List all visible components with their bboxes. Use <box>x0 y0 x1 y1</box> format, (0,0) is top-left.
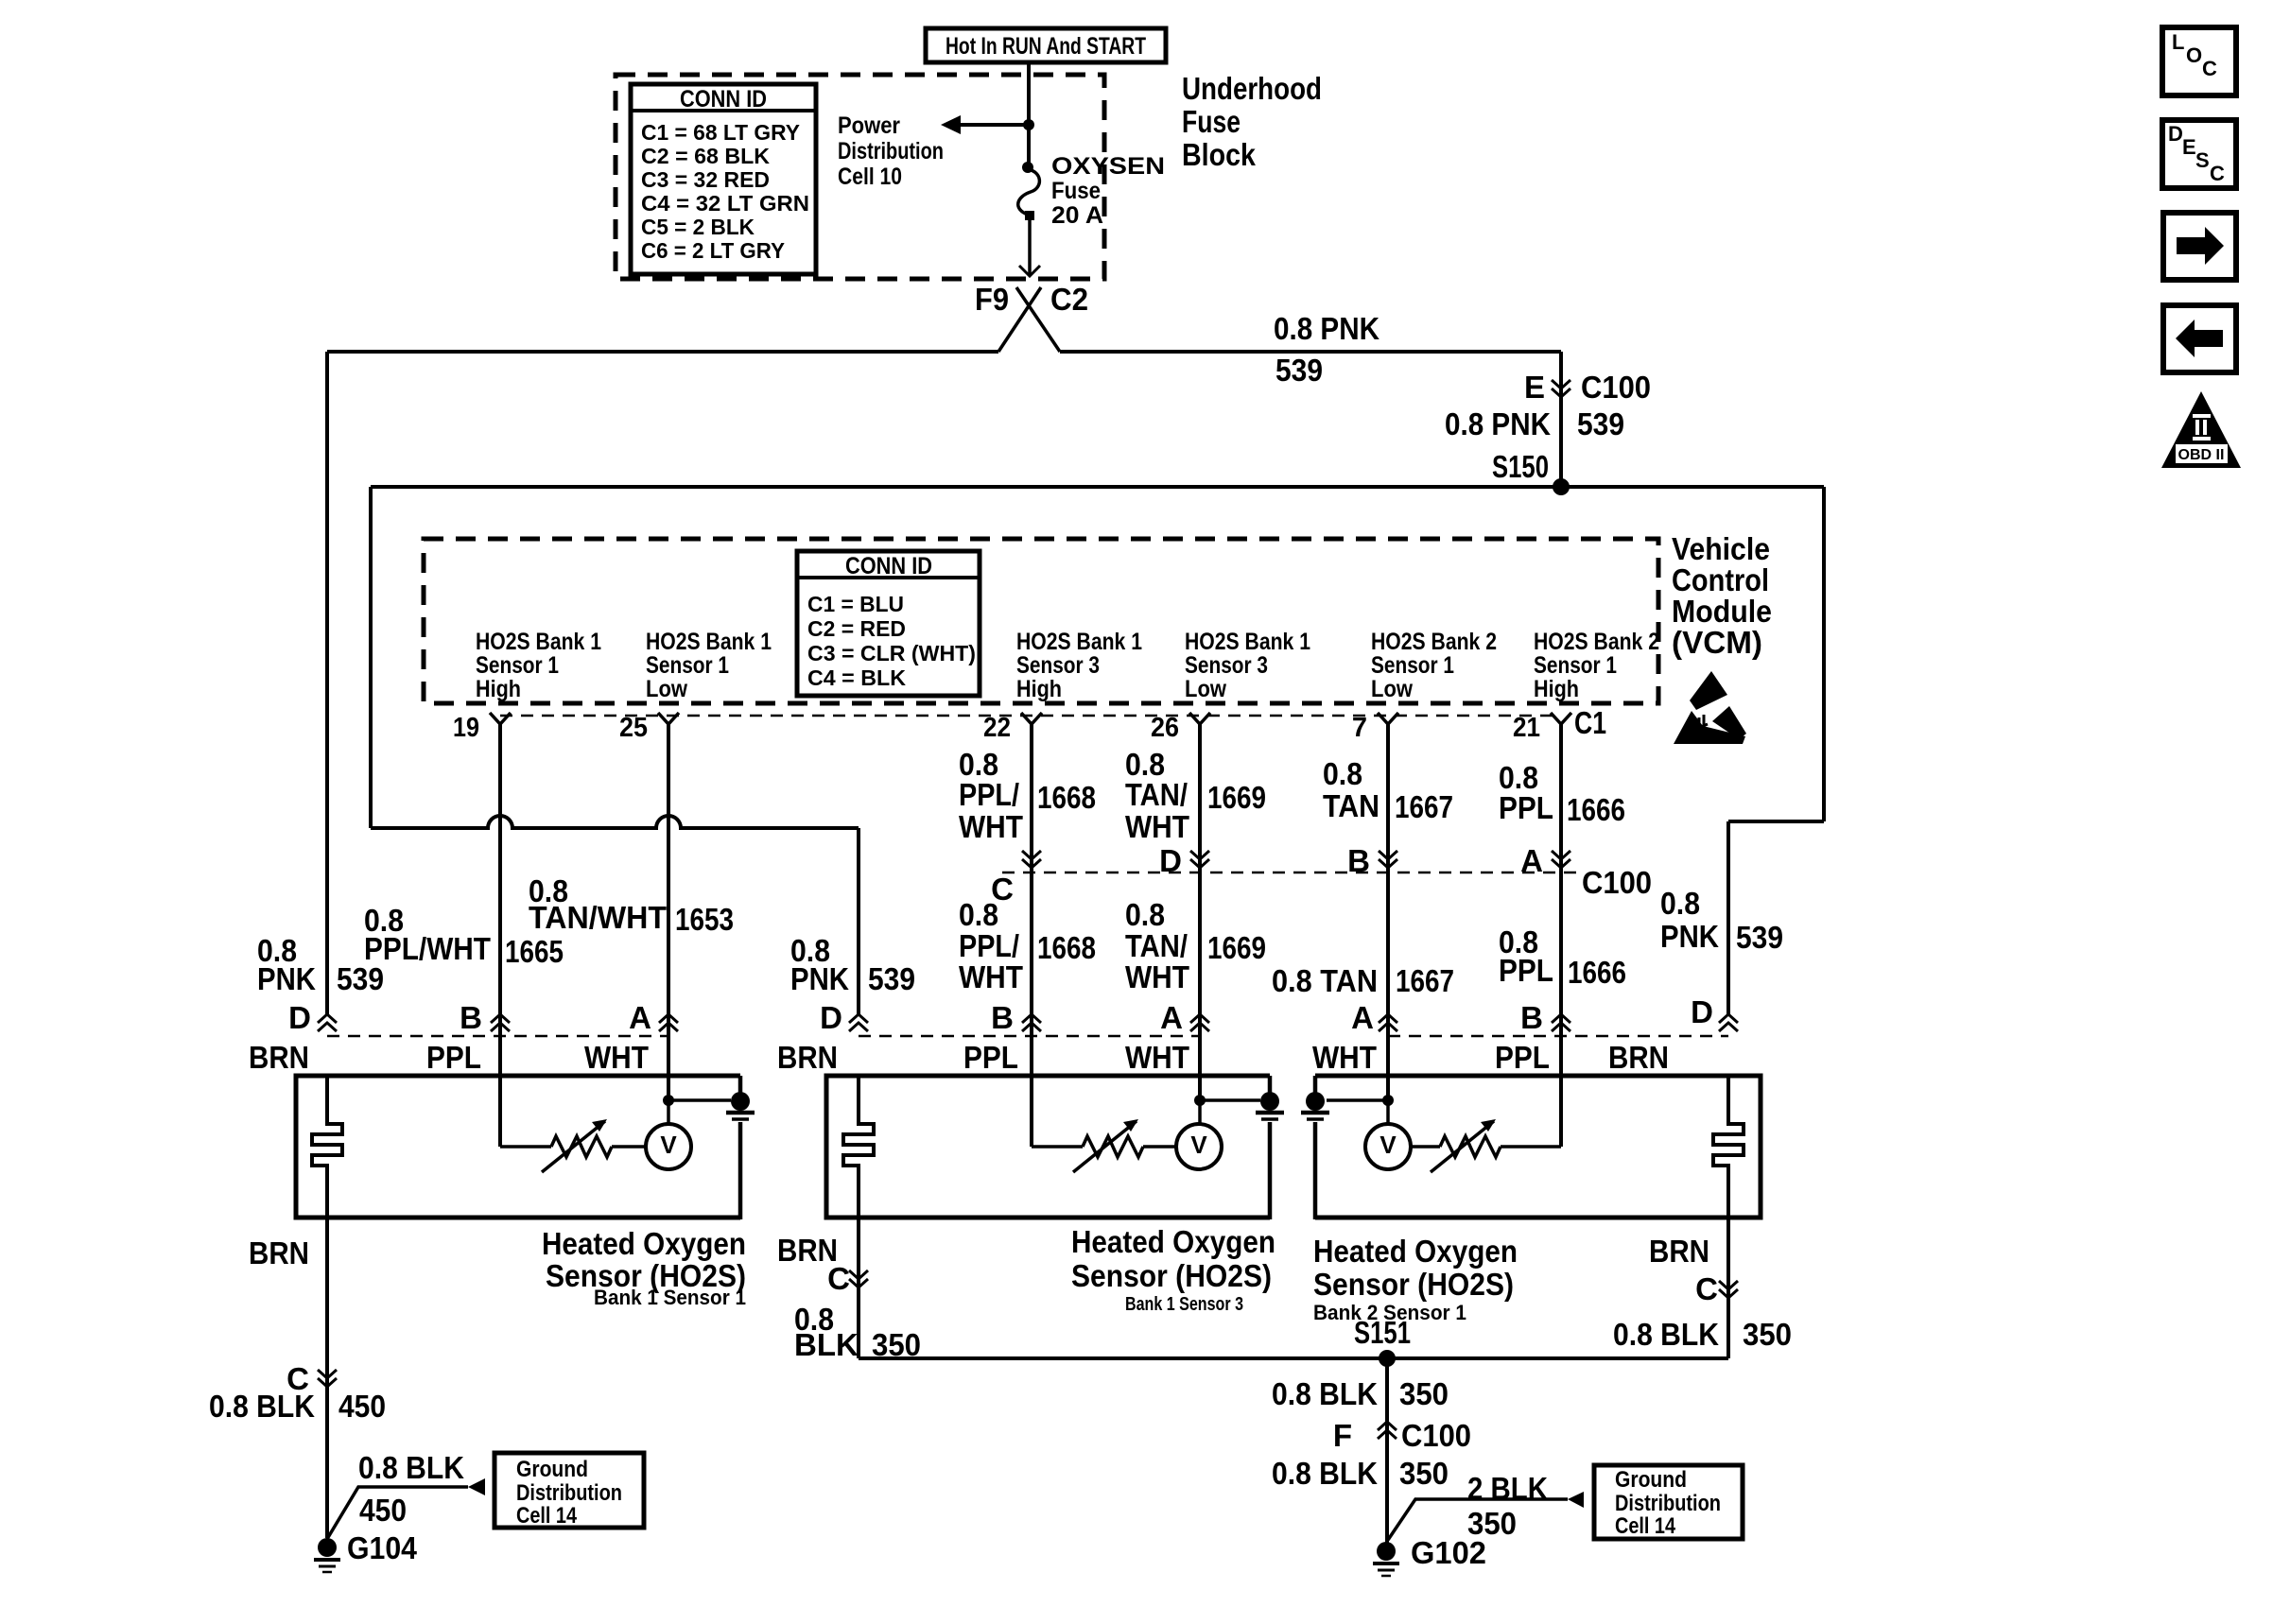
ESD sensitivity symbol <box>1690 671 1727 710</box>
svg-text:G102: G102 <box>1411 1535 1486 1570</box>
svg-text:1667: 1667 <box>1395 789 1453 824</box>
wire to Power Distribution <box>955 123 1029 127</box>
svg-text:C2: C2 <box>1050 282 1088 317</box>
svg-text:CONN ID: CONN ID <box>680 86 767 112</box>
svg-text:C2 = RED: C2 = RED <box>807 616 906 641</box>
svg-text:350: 350 <box>1743 1317 1792 1352</box>
triangle to Ground Distribution (left) <box>468 1478 485 1495</box>
svg-text:0.8 PNK: 0.8 PNK <box>1445 406 1551 441</box>
svg-text:0.8 PNK: 0.8 PNK <box>1274 311 1379 346</box>
svg-text:WHT: WHT <box>584 1040 649 1075</box>
svg-text:HO2S Bank 1: HO2S Bank 1 <box>1185 629 1310 655</box>
svg-text:WHT: WHT <box>1125 959 1189 994</box>
svg-text:PPL: PPL <box>1499 790 1553 825</box>
svg-text:PNK: PNK <box>1660 919 1719 954</box>
svg-text:(VCM): (VCM) <box>1672 625 1762 660</box>
svg-text:CONN ID: CONN ID <box>845 553 932 579</box>
svg-text:0.8 BLK: 0.8 BLK <box>358 1450 464 1485</box>
svg-text:22: 22 <box>983 713 1011 743</box>
svg-text:TAN: TAN <box>1323 788 1379 823</box>
wire B to variable resistor (sensor 2) <box>1032 1145 1083 1149</box>
svg-text:WHT: WHT <box>1125 809 1189 844</box>
wire BRN/BLK 350 sensor2 to S151 <box>857 1219 860 1358</box>
svg-text:Sensor (HO2S): Sensor (HO2S) <box>1071 1258 1272 1293</box>
label box "Hot In RUN And START" <box>926 28 1166 62</box>
arrowhead to Power Distribution <box>941 115 961 134</box>
ground (sensor 3 internal) <box>1313 1076 1318 1097</box>
box Ground Distribution Cell 14 (right) <box>1594 1465 1743 1539</box>
svg-text:TAN/WHT: TAN/WHT <box>529 900 667 935</box>
svg-text:539: 539 <box>337 961 384 996</box>
icon arrow left <box>2163 305 2236 372</box>
voltmeter V (sensor 1) <box>646 1124 691 1169</box>
svg-text:0.8 BLK: 0.8 BLK <box>1272 1376 1378 1411</box>
wire from Hot In RUN And START to junction <box>1027 62 1031 125</box>
svg-text:Sensor 3: Sensor 3 <box>1185 652 1268 679</box>
svg-text:C: C <box>1695 1271 1718 1306</box>
wire PNK down to HO2S B2S1 pin D <box>1726 821 1730 1014</box>
wire to Ground Distribution Cell 14 (left) <box>327 1487 468 1539</box>
svg-text:2 BLK: 2 BLK <box>1467 1471 1548 1506</box>
svg-text:C3 = CLR (WHT): C3 = CLR (WHT) <box>807 641 976 665</box>
CONN ID header separator <box>631 109 816 112</box>
wire TAN/WHT 1669 pin26 to sensor2 <box>1198 724 1202 1100</box>
wire bus step left <box>1728 820 1824 823</box>
CONN ID table (fuse block) <box>631 84 816 274</box>
svg-text:HO2S Bank 1: HO2S Bank 1 <box>1016 629 1142 655</box>
wire BRN/BLK 350 sensor3 to S151 <box>1726 1219 1730 1358</box>
svg-text:1666: 1666 <box>1568 955 1626 990</box>
voltmeter V (sensor 2) <box>1176 1124 1222 1169</box>
svg-text:C100: C100 <box>1582 865 1652 900</box>
splice S150 <box>1553 478 1570 495</box>
svg-text:1667: 1667 <box>1396 963 1454 998</box>
svg-text:BRN: BRN <box>1608 1040 1669 1075</box>
svg-text:Sensor 3: Sensor 3 <box>1016 652 1100 679</box>
svg-text:A: A <box>1160 1000 1183 1035</box>
svg-text:C: C <box>827 1261 850 1296</box>
wire TAN/WHT 1653 pin25 to sensor1 <box>667 724 670 1100</box>
svg-text:F9: F9 <box>975 282 1009 317</box>
svg-text:0.8: 0.8 <box>1323 756 1362 791</box>
svg-text:350: 350 <box>1399 1456 1449 1491</box>
svg-text:1669: 1669 <box>1207 780 1266 815</box>
svg-text:OBD II: OBD II <box>2178 447 2225 463</box>
svg-text:0.8: 0.8 <box>1660 886 1700 921</box>
svg-text:Distribution: Distribution <box>1615 1491 1721 1516</box>
svg-text:Control: Control <box>1672 562 1769 597</box>
wire S151 bus <box>859 1356 1728 1360</box>
svg-text:A: A <box>1351 1000 1374 1035</box>
svg-text:C5 = 2 BLK: C5 = 2 BLK <box>641 215 755 239</box>
svg-text:Hot In RUN And START: Hot In RUN And START <box>946 33 1146 60</box>
wire V to A (sensor 3) <box>1386 1100 1390 1124</box>
wire 0.8 PNK 539 left run <box>327 350 998 354</box>
wire bus right side down <box>1822 487 1826 821</box>
svg-text:450: 450 <box>338 1389 386 1424</box>
Heated Oxygen Sensor box Bank 1 Sensor 3 <box>826 1076 1270 1218</box>
svg-text:TAN/: TAN/ <box>1125 777 1188 812</box>
svg-text:HO2S Bank 2: HO2S Bank 2 <box>1371 629 1497 655</box>
svg-text:C1: C1 <box>1574 705 1606 740</box>
svg-text:B: B <box>1347 843 1370 878</box>
wire S150 bus top <box>371 485 1824 489</box>
svg-text:BRN: BRN <box>249 1040 309 1075</box>
wire junction to ground (sensor 1) <box>668 1098 731 1102</box>
heater element (sensor 3) <box>1713 1074 1744 1219</box>
svg-text:PNK: PNK <box>790 961 849 996</box>
svg-text:0.8: 0.8 <box>959 897 998 932</box>
svg-text:High: High <box>1016 676 1062 702</box>
junction on wire A (sensor 3) <box>1382 1095 1394 1106</box>
wire fuse to fuse block output <box>1028 219 1032 274</box>
wire junction to ground (sensor 3) <box>1327 1098 1388 1102</box>
CONN ID table (VCM) <box>797 551 980 696</box>
wire PNK down to S150 <box>1559 352 1563 487</box>
icon arrow right <box>2163 213 2236 280</box>
svg-text:Sensor 1: Sensor 1 <box>1534 652 1617 679</box>
svg-text:Sensor 1: Sensor 1 <box>476 652 559 679</box>
svg-text:C: C <box>2202 57 2217 80</box>
svg-text:1653: 1653 <box>675 902 734 937</box>
variable resistor (sensor 2) <box>1083 1136 1143 1157</box>
svg-text:20 A: 20 A <box>1051 202 1103 229</box>
svg-text:0.8 BLK: 0.8 BLK <box>209 1389 315 1424</box>
splice S151 <box>1379 1350 1396 1367</box>
svg-text:Power: Power <box>838 112 900 139</box>
svg-text:Low: Low <box>646 676 687 702</box>
svg-text:D: D <box>1691 994 1713 1029</box>
svg-text:PPL: PPL <box>426 1040 481 1075</box>
svg-text:D: D <box>288 1000 311 1035</box>
heater element (sensor 1) <box>312 1074 342 1219</box>
svg-text:539: 539 <box>868 961 915 996</box>
heater element (sensor 2) <box>843 1074 874 1219</box>
svg-text:21: 21 <box>1513 713 1540 743</box>
connector C100 dashed line (mid) <box>1002 872 1577 874</box>
wire PNK down left side to HO2S B1S1 pin D <box>325 352 329 1014</box>
wire BLK 350 S151 to G102 <box>1385 1358 1389 1543</box>
svg-text:S150: S150 <box>1492 449 1549 484</box>
svg-text:Ground: Ground <box>1615 1467 1687 1493</box>
svg-text:B: B <box>991 1000 1014 1035</box>
icon OBD II triangle <box>2161 391 2241 468</box>
svg-text:PPL: PPL <box>1495 1040 1550 1075</box>
icon LOC <box>2162 27 2236 95</box>
svg-text:1665: 1665 <box>505 934 564 969</box>
dashed box Underhood Fuse Block <box>616 75 1104 279</box>
svg-text:Cell 10: Cell 10 <box>838 164 902 190</box>
box Ground Distribution Cell 14 (left) <box>495 1453 644 1528</box>
connector X symbol F9/C2 <box>998 287 1060 352</box>
svg-text:C3 = 32 RED: C3 = 32 RED <box>641 167 770 192</box>
svg-text:Distribution: Distribution <box>838 138 944 164</box>
wire V to A (sensor 2) <box>1198 1100 1202 1124</box>
svg-text:Cell 14: Cell 14 <box>516 1503 578 1529</box>
arrowhead at fuse block exit <box>1019 266 1040 276</box>
svg-text:0.8 BLK: 0.8 BLK <box>1613 1317 1719 1352</box>
wire PPL 1666 pin21 to sensor3 <box>1559 724 1563 1147</box>
svg-text:B: B <box>460 1000 482 1035</box>
svg-text:OXYSEN: OXYSEN <box>1051 153 1165 180</box>
svg-text:L: L <box>2172 30 2184 54</box>
wire bus left side down <box>369 487 373 828</box>
ground (sensor 1 internal) <box>738 1076 743 1097</box>
svg-text:BRN: BRN <box>1649 1234 1709 1269</box>
variable resistor (sensor 1) <box>551 1136 612 1157</box>
svg-text:Bank 1 Sensor 1: Bank 1 Sensor 1 <box>594 1286 746 1309</box>
svg-text:Low: Low <box>1371 676 1413 702</box>
Heated Oxygen Sensor box Bank 1 Sensor 1 <box>296 1076 740 1218</box>
icon DESC <box>2162 120 2236 188</box>
svg-text:539: 539 <box>1577 406 1624 441</box>
svg-text:1668: 1668 <box>1037 930 1096 965</box>
svg-text:Ground: Ground <box>516 1457 588 1482</box>
svg-text:C1 = BLU: C1 = BLU <box>807 592 904 616</box>
wire PPL/WHT 1665 pin19 to sensor1 <box>498 724 502 1147</box>
svg-text:Heated Oxygen: Heated Oxygen <box>1313 1234 1518 1269</box>
ground G104 <box>318 1538 337 1557</box>
svg-text:C: C <box>2210 162 2225 185</box>
Heated Oxygen Sensor box Bank 2 Sensor 1 <box>1315 1076 1761 1218</box>
svg-text:High: High <box>476 676 521 702</box>
wire to Ground Distribution Cell 14 (right) <box>1388 1499 1568 1540</box>
variable resistor (sensor 3) <box>1440 1136 1501 1157</box>
wire PPL/WHT 1668 pin22 to sensor2 <box>1030 724 1033 1147</box>
svg-text:Sensor (HO2S): Sensor (HO2S) <box>1313 1267 1514 1302</box>
wire PNK down to HO2S B1S3 pin D <box>857 828 860 1014</box>
svg-text:HO2S Bank 1: HO2S Bank 1 <box>476 629 601 655</box>
svg-text:Heated Oxygen: Heated Oxygen <box>1071 1224 1275 1259</box>
wire TAN 1667 pin7 to sensor3 <box>1386 724 1390 1100</box>
svg-text:F: F <box>1333 1418 1352 1453</box>
svg-text:Heated Oxygen: Heated Oxygen <box>542 1226 746 1261</box>
svg-text:Fuse: Fuse <box>1051 178 1101 204</box>
wire bus lower run with hops over sensor wires <box>371 816 859 828</box>
svg-text:E: E <box>2182 135 2196 159</box>
svg-text:Underhood: Underhood <box>1182 71 1322 106</box>
sensor 3 connector row <box>1388 1035 1728 1038</box>
svg-text:A: A <box>1520 843 1543 878</box>
svg-text:HO2S Bank 2: HO2S Bank 2 <box>1534 629 1659 655</box>
svg-text:S: S <box>2195 148 2210 172</box>
svg-text:0.8 BLK: 0.8 BLK <box>1272 1456 1378 1491</box>
svg-text:539: 539 <box>1275 353 1323 388</box>
voltmeter V (sensor 3) <box>1365 1124 1411 1169</box>
svg-text:V: V <box>1190 1131 1207 1159</box>
svg-text:C2 = 68 BLK: C2 = 68 BLK <box>641 144 770 168</box>
svg-text:PNK: PNK <box>257 961 316 996</box>
svg-text:High: High <box>1534 676 1579 702</box>
svg-text:WHT: WHT <box>959 959 1023 994</box>
svg-text:C1 = 68 LT GRY: C1 = 68 LT GRY <box>641 120 800 145</box>
svg-text:S151: S151 <box>1354 1315 1411 1350</box>
svg-text:1669: 1669 <box>1207 930 1266 965</box>
ground G102 <box>1377 1542 1396 1561</box>
junction on wire A (sensor 1) <box>663 1095 674 1106</box>
svg-text:V: V <box>1379 1131 1397 1159</box>
svg-text:26: 26 <box>1151 713 1179 743</box>
svg-text:Sensor 1: Sensor 1 <box>646 652 729 679</box>
svg-text:C4 = BLK: C4 = BLK <box>807 665 906 690</box>
svg-text:C6 = 2 LT GRY: C6 = 2 LT GRY <box>641 238 785 263</box>
junction at power distribution tap <box>1023 119 1034 130</box>
svg-text:D: D <box>2168 122 2183 146</box>
wire junction to fuse <box>1027 125 1031 166</box>
svg-text:Vehicle: Vehicle <box>1672 531 1770 566</box>
wire BRN/BLK 450 sensor1 to G104 <box>325 1219 329 1538</box>
svg-text:WHT: WHT <box>1312 1040 1377 1075</box>
svg-text:WHT: WHT <box>959 809 1023 844</box>
svg-text:Low: Low <box>1185 676 1226 702</box>
fuse OXYSEN 20 A <box>1022 162 1033 173</box>
dashed box Vehicle Control Module (VCM) <box>424 539 1658 703</box>
junction on wire A (sensor 2) <box>1194 1095 1206 1106</box>
triangle to Ground Distribution (right) <box>1568 1492 1584 1508</box>
svg-text:Distribution: Distribution <box>516 1480 622 1506</box>
svg-text:PPL/: PPL/ <box>959 928 1019 963</box>
svg-text:0.8 TAN: 0.8 TAN <box>1272 963 1378 998</box>
sensor 2 connector row <box>859 1035 1200 1038</box>
sensor 1 connector row <box>327 1035 668 1038</box>
svg-text:Block: Block <box>1182 137 1257 172</box>
svg-text:19: 19 <box>453 713 479 743</box>
svg-text:Module: Module <box>1672 594 1772 629</box>
wire V to A (sensor 1) <box>667 1100 670 1124</box>
svg-text:O: O <box>2186 43 2202 67</box>
svg-text:E: E <box>1524 370 1545 405</box>
ground (sensor 2 internal) <box>1268 1076 1273 1097</box>
svg-text:7: 7 <box>1352 713 1367 743</box>
svg-text:Fuse: Fuse <box>1182 104 1241 139</box>
wire B to variable resistor (sensor 1) <box>500 1145 551 1149</box>
svg-text:C100: C100 <box>1401 1418 1471 1453</box>
svg-text:PPL: PPL <box>1499 953 1553 988</box>
svg-text:WHT: WHT <box>1125 1040 1189 1075</box>
svg-text:PPL: PPL <box>963 1040 1018 1075</box>
svg-text:Sensor 1: Sensor 1 <box>1371 652 1454 679</box>
svg-text:D: D <box>1159 843 1182 878</box>
svg-text:C100: C100 <box>1581 370 1651 405</box>
VCM connector dashed line <box>500 715 1561 717</box>
svg-text:BRN: BRN <box>249 1235 309 1270</box>
svg-text:BLK: BLK <box>794 1327 859 1362</box>
svg-text:PPL/: PPL/ <box>959 777 1019 812</box>
svg-text:G104: G104 <box>347 1530 418 1565</box>
svg-text:350: 350 <box>1399 1376 1449 1411</box>
svg-text:V: V <box>660 1131 677 1159</box>
svg-text:HO2S Bank 1: HO2S Bank 1 <box>646 629 772 655</box>
svg-text:539: 539 <box>1736 920 1783 955</box>
wire variable resistor to B (sensor 3) <box>1501 1145 1561 1149</box>
svg-text:25: 25 <box>619 713 648 743</box>
wire 0.8 PNK 539 right run <box>1060 350 1561 354</box>
svg-text:D: D <box>820 1000 842 1035</box>
svg-text:0.8: 0.8 <box>1125 897 1165 932</box>
svg-text:1666: 1666 <box>1567 792 1625 827</box>
svg-text:A: A <box>629 1000 651 1035</box>
svg-text:Bank 1 Sensor 3: Bank 1 Sensor 3 <box>1125 1294 1243 1315</box>
svg-text:TAN/: TAN/ <box>1125 928 1188 963</box>
svg-text:C4 = 32 LT GRN: C4 = 32 LT GRN <box>641 191 809 216</box>
svg-text:450: 450 <box>359 1493 407 1528</box>
svg-text:1668: 1668 <box>1037 780 1096 815</box>
svg-text:B: B <box>1520 1000 1543 1035</box>
wire junction to ground (sensor 2) <box>1200 1098 1260 1102</box>
svg-text:Cell 14: Cell 14 <box>1615 1513 1676 1539</box>
svg-text:BRN: BRN <box>777 1040 838 1075</box>
